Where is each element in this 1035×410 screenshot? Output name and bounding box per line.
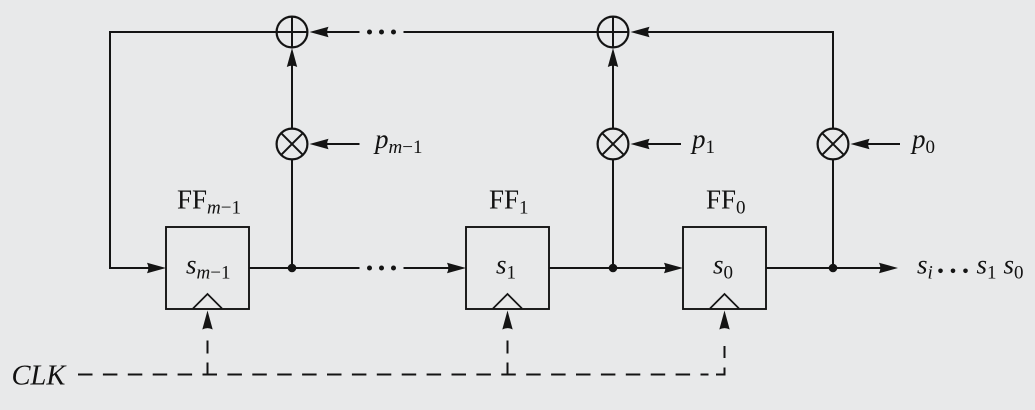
- clock wedge of FF m-1: [193, 294, 222, 309]
- ellipsis dots on top feedback line: [367, 30, 372, 35]
- node junction dot at x=613: [609, 264, 618, 273]
- wire: top line from right column to XOR U2: [646, 31, 833, 33]
- ellipsis dots on register row: [367, 266, 372, 271]
- XOR gate U2 (top middle): [598, 17, 629, 48]
- arrowhead clock into FF0: [719, 311, 729, 330]
- wire: CLK dashed vertical to FF1: [507, 334, 509, 376]
- arrowhead clock into FF m-1: [202, 311, 212, 330]
- multiplier M(m-1): [277, 129, 308, 160]
- arrowhead into XOR U2: [631, 27, 650, 37]
- wire: top line from ellipsis to XOR U2: [404, 31, 598, 33]
- multiplier M1: [598, 129, 629, 160]
- wire: multiplier M(m-1) down to node: [291, 160, 293, 269]
- svg-text:CLK: CLK: [12, 361, 68, 392]
- arrowhead into FF1 input: [447, 263, 466, 273]
- wire: feedback left vertical: [109, 31, 111, 268]
- multiplier M0: [818, 129, 849, 160]
- arrowhead into FF m-1 input: [147, 263, 166, 273]
- XOR gate U1 (top left): [277, 17, 308, 48]
- wire with arrow into M0 from right: [866, 143, 900, 145]
- arrowhead into M0: [851, 139, 870, 149]
- wire: CLK dashed elbow corner to FF0: [716, 368, 725, 375]
- wire: CLK dash segment to FF0: [724, 346, 726, 358]
- wire: FF0 output to serial out arrow: [766, 267, 882, 269]
- wire: CLK dashed horizontal: [78, 374, 709, 376]
- wire: feedback top-left horizontal from XOR U1 to left corner: [110, 31, 277, 33]
- arrowhead into M(m-1): [310, 139, 329, 149]
- wire: FF1 output to FF0: [549, 267, 667, 269]
- arrowhead clock into FF1: [502, 311, 512, 330]
- wire with arrow into XOR U1 from right: [325, 31, 360, 33]
- wire with arrow into M1 from right: [646, 143, 681, 145]
- arrowhead into M1: [631, 139, 650, 149]
- wire: CLK dashed vertical to FF m-1: [207, 334, 209, 376]
- clock wedge of FF0: [710, 294, 739, 309]
- wire: multiplier M1 up to XOR U2 with arrow: [612, 64, 614, 129]
- clock wedge of FF1: [493, 294, 522, 309]
- wire with arrow into FF1: [404, 267, 451, 269]
- arrowhead serial output: [879, 263, 898, 273]
- label dots of s i ...: [938, 269, 943, 274]
- wire: FF m-1 output to ellipsis: [249, 267, 360, 269]
- arrowhead up into XOR U1: [287, 48, 297, 67]
- wire with arrow into M(m-1) from right: [325, 143, 360, 145]
- wire: multiplier M(m-1) up to XOR U1 with arrow: [291, 64, 293, 129]
- arrowhead into XOR U1: [310, 27, 329, 37]
- flip-flop FF0 box: [683, 227, 766, 309]
- node junction dot at x=833: [829, 264, 838, 273]
- arrowhead into FF0 input: [664, 263, 683, 273]
- wire: feedback bottom-left into FF m-1: [109, 267, 150, 269]
- node junction dot at x=292: [288, 264, 297, 273]
- flip-flop FF m-1 box: [166, 227, 249, 309]
- flip-flop FF1 box: [466, 227, 549, 309]
- wire: right column vertical from top corner down to multiplier M0: [832, 31, 834, 129]
- arrowhead up into XOR U2: [608, 48, 618, 67]
- wire: multiplier M0 down to node: [832, 160, 834, 269]
- wire: multiplier M1 down to node: [612, 160, 614, 269]
